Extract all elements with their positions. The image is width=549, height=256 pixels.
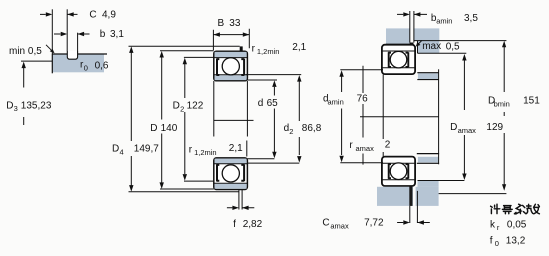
svg-text:3,1: 3,1 [110,29,124,40]
svg-text:f: f [490,235,493,246]
svg-text:D: D [173,101,180,112]
label Camax 7,72 [322,218,384,231]
svg-text:max: max [422,41,441,52]
outer ring inner surface line (right top section) [382,50,415,52]
dimension Ca arrows [397,220,430,224]
bearing bottom section outline [214,158,248,190]
svg-text:129: 129 [486,122,503,133]
housing shoulder top edge / Da extension (bottom) [418,180,465,182]
label min 0,5 with leader [9,45,55,57]
inner ring shoulder line (right top section) [382,67,415,69]
Ca extension lines [410,191,418,223]
shaft left end face line [362,66,364,165]
label D 140 [150,123,177,134]
svg-text:C: C [322,218,329,229]
svg-text:3: 3 [14,104,18,113]
Db extension line (bottom) [439,193,507,195]
svg-text:2,82: 2,82 [243,219,263,230]
svg-text:D: D [112,144,119,155]
factor kr 0,05 [490,220,527,233]
svg-text:min 0,5: min 0,5 [9,46,42,57]
dimension d extension lines [246,80,277,159]
dimension Damax line with arrows [462,54,466,180]
svg-text:r: r [252,44,256,55]
label d 65 [258,98,278,109]
svg-text:d: d [258,98,264,109]
inner ring shoulder line (right bottom section) [382,162,415,164]
svg-text:2: 2 [385,140,391,151]
svg-text:r: r [189,144,193,155]
dimension da line with arrows [339,70,343,162]
dimension D3 line with up arrow [22,62,26,125]
svg-text:149,7: 149,7 [134,144,159,155]
svg-text:b: b [100,29,106,40]
dimension D2 line with arrows [183,58,187,181]
svg-text:2,1: 2,1 [229,143,243,154]
label bamin 3,5 [431,13,478,26]
svg-text:amin: amin [436,17,452,26]
label d2 86,8 [284,123,322,136]
dimension d line with arrows [272,80,276,158]
svg-text:65: 65 [267,98,279,109]
label Damax 129 [450,122,503,135]
ba extension lines [410,11,414,43]
svg-text:k: k [490,220,496,231]
snap ring (right figure top, dark) [410,43,414,48]
label D3 135,23 [6,100,52,113]
svg-text:0,05: 0,05 [507,220,527,231]
svg-text:33: 33 [229,18,241,29]
svg-text:C: C [89,10,96,21]
housing snap ring groove channel (white) [410,28,413,43]
shaft shoulder band (right, top half) [417,73,438,80]
bore silhouette lines between sections [214,81,248,137]
shaft shoulder band (right, bottom half) [417,154,439,164]
svg-text:1,2min: 1,2min [194,148,217,157]
housing block (bottom, blue) [377,187,439,206]
svg-text:0,5: 0,5 [446,41,460,52]
label D4 149,7 [112,144,159,157]
extension line slot right edge [77,33,79,51]
label D2 122 [173,101,204,114]
label Dbmin 151 [488,96,540,109]
groove detail ring cross-section (blue block) [52,54,107,73]
dimension B line with arrows [213,32,249,36]
bearing top section outline (right figure) [382,45,415,74]
ball (bottom section) [222,165,239,182]
inner ring face line between sections [382,75,384,157]
shaft right end face line [438,69,440,164]
dimension D2 extension lines [184,57,214,181]
svg-text:135,23: 135,23 [21,100,52,111]
housing shoulder (bottom, blue) [418,181,439,187]
svg-text:86,8: 86,8 [302,123,322,134]
svg-text:D: D [450,122,457,133]
snap ring groove slot in block [67,51,77,59]
outer ring inner surface line (right bottom section) [382,179,415,181]
axis centerline (right figure) [360,116,439,118]
dimension ba arrows [397,12,427,16]
inner ring band (bottom section) [215,159,248,164]
dimension D4 line with arrows [129,46,133,191]
dimension D3 extension line [21,60,52,62]
label damin 76 [323,93,368,106]
dimension D extension lines [160,51,214,189]
label r0 0,6 [80,60,109,73]
svg-text:bmin: bmin [494,100,510,109]
snap ring (top, dark) [240,46,243,51]
housing block (top, blue) [386,28,439,53]
shields (right bottom section) [388,164,408,179]
svg-text:151: 151 [523,96,540,107]
label max 0,5 with leader [416,40,460,52]
svg-text:amax: amax [458,126,477,135]
shields (bottom section) [217,164,245,181]
svg-text:r: r [349,140,353,151]
housing shoulder bottom edge / Da extension (top) [418,52,467,54]
bearing bottom section outline (right figure) [382,157,415,186]
svg-text:2: 2 [289,127,293,136]
svg-text:2: 2 [180,104,184,113]
svg-text:122: 122 [187,101,204,112]
label r1,2min 2,1 (top) [252,42,307,56]
label ramax 2 [349,140,390,154]
dimension D4 extension lines [129,46,240,191]
svg-text:4: 4 [120,148,124,157]
label f 2,82 [233,219,263,230]
dimension Dbmin line with arrows [502,41,506,191]
svg-text:D: D [150,123,157,134]
svg-text:B: B [218,18,225,29]
dimension da extension lines [340,70,383,163]
svg-text:f: f [233,219,236,230]
factor f0 13,2 [490,235,526,248]
shields (top section) [217,59,245,76]
dimension d2 line with arrows [297,75,301,163]
dimension C arrows [40,12,78,16]
shields (right top section) [388,52,408,67]
svg-text:amin: amin [328,98,344,107]
extension line slot left edge [66,9,68,51]
label r1,2min 2,1 (bottom) with tick [189,141,247,157]
inner ring band (top section) [215,75,248,80]
bearing top section outline [214,51,248,81]
dimension f arrows [227,206,254,210]
svg-text:140: 140 [161,123,178,134]
snap ring (right figure bottom, dark bar) [413,187,416,206]
ball (top section) [222,58,239,75]
svg-text:0,6: 0,6 [95,60,109,71]
svg-text:amax: amax [330,222,349,231]
extension line block left face (C dim) [51,9,53,54]
svg-text:7,72: 7,72 [364,218,384,229]
svg-text:4,9: 4,9 [102,10,116,21]
ball (right bottom section) [390,163,407,180]
svg-text:76: 76 [357,93,369,104]
svg-text:0: 0 [495,239,499,248]
svg-text:1,2min: 1,2min [257,47,280,56]
label B 33 [218,18,241,29]
snap ring groove lines (bottom) / f extension lines [239,190,242,210]
axis centerline (middle figure) [214,119,254,121]
dimension b arrows [54,32,90,36]
calculation factors heading (计算系数 drawn as strokes) [491,204,540,214]
housing recess line / Db extension (top) [414,40,507,42]
outer ring band (top section) [215,52,248,58]
svg-text:amax: amax [356,144,375,153]
svg-text:3,5: 3,5 [464,13,478,24]
dimension D line with arrows [160,51,164,189]
svg-text:D: D [6,100,13,111]
ball (right top section) [390,51,407,68]
svg-text:13,2: 13,2 [506,235,526,246]
svg-text:2,1: 2,1 [292,42,306,53]
svg-text:0: 0 [84,63,88,72]
svg-text:r: r [497,223,500,232]
dimension B extension lines [213,29,249,50]
dimension d2 extension lines [246,75,302,164]
outer ring band (bottom section) [215,183,248,189]
